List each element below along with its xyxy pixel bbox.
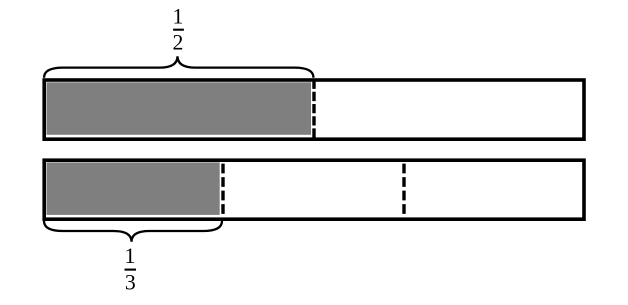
svg-text:1: 1	[124, 244, 135, 268]
svg-text:1: 1	[172, 4, 183, 28]
svg-text:2: 2	[172, 31, 183, 55]
svg-text:3: 3	[125, 271, 136, 295]
